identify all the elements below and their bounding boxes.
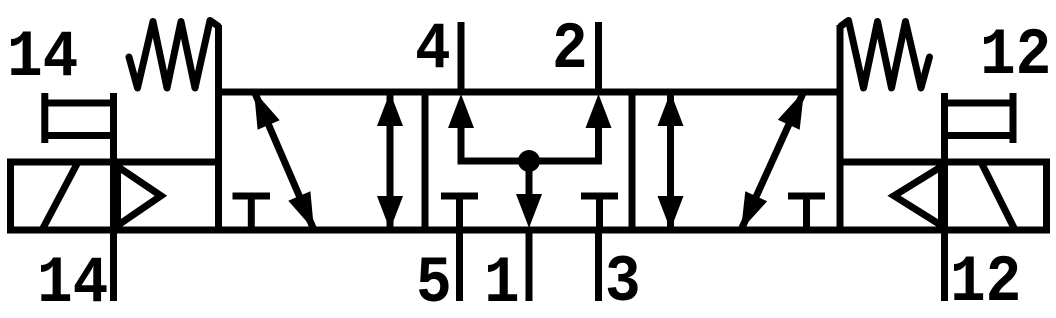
- port 4 line: [458, 22, 465, 92]
- port 3 line: [595, 230, 602, 301]
- spring right: [841, 21, 930, 89]
- box1 blocked port T: [233, 196, 271, 230]
- pilot symbol 14 bottom line: [45, 132, 114, 139]
- valve right edge (tall line): [837, 25, 844, 230]
- svg-text:14: 14: [7, 20, 78, 95]
- pilot line / divider 12 (vertical through right pilot, port 12): [941, 93, 948, 301]
- pilot amplifier triangle (right, pointing left): [894, 167, 942, 226]
- svg-text:2: 2: [552, 12, 588, 87]
- spring left: [129, 21, 218, 89]
- port 1 line: [526, 230, 533, 301]
- solenoid coil diagonal (left): [42, 162, 78, 230]
- box1 vertical flow arrow (2-3): [377, 92, 403, 230]
- pilot amplifier triangle (left, pointing right): [118, 167, 162, 226]
- box1 crossover flow arrow (1-4): [254, 91, 314, 230]
- valve box divider 2: [629, 92, 636, 230]
- box3 vertical flow arrow (4-5): [658, 92, 684, 230]
- port 5 line: [456, 230, 463, 301]
- pilot symbol 14 end bar: [41, 93, 48, 143]
- solenoid box right (pilot valve body): [840, 162, 1047, 230]
- pilot symbol 12 end bar: [1010, 93, 1017, 143]
- svg-text:4: 4: [415, 12, 451, 87]
- junction dot: [518, 150, 540, 172]
- port 1 branch with down arrow: [516, 161, 542, 228]
- svg-text:12: 12: [950, 245, 1021, 318]
- pilot symbol 14 top line: [45, 100, 114, 107]
- pilot symbol 12 bottom line: [945, 132, 1014, 139]
- valve body outline: [219, 92, 841, 230]
- valve box divider 1: [422, 92, 429, 230]
- valve left edge (tall line): [215, 25, 222, 230]
- box3 blocked port T: [788, 196, 825, 230]
- svg-text:12: 12: [980, 18, 1051, 93]
- box2 blocked port 5 T: [441, 196, 478, 230]
- pilot line / divider 14 (vertical through left pilot, port 14): [110, 93, 117, 301]
- box3 crossover flow arrow (1-2): [741, 91, 804, 230]
- svg-text:14: 14: [37, 246, 108, 318]
- box2 blocked port 3 T: [581, 196, 618, 230]
- port 4 / port 2 branch with up arrows and center connector: [448, 94, 612, 161]
- svg-text:3: 3: [605, 245, 641, 318]
- svg-text:1: 1: [484, 246, 520, 318]
- solenoid box left (pilot valve body): [11, 162, 219, 230]
- pilot symbol 12 top line: [945, 100, 1014, 107]
- solenoid coil diagonal (right): [981, 162, 1015, 230]
- svg-text:5: 5: [416, 246, 452, 318]
- port 2 line: [595, 22, 602, 92]
